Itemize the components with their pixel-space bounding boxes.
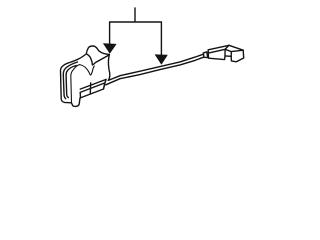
sensor clip inner contour 2: [66, 66, 76, 98]
sensor clip outline: [61, 46, 110, 106]
connector creases: [225, 45, 243, 56]
callout bracket: [110, 8, 162, 55]
sensor clip tab: [80, 79, 106, 89]
arrow left: [103, 44, 116, 54]
sensor clip right edge: [108, 55, 109, 81]
cable: [108, 54, 203, 80]
arrow right: [155, 55, 167, 64]
connector collar: [203, 52, 207, 58]
connector silhouette: [208, 45, 244, 62]
sensor clip grommet ring: [71, 65, 95, 103]
sensor clip inner contour 1: [63, 62, 77, 99]
sensor clip slot branch: [87, 54, 109, 65]
